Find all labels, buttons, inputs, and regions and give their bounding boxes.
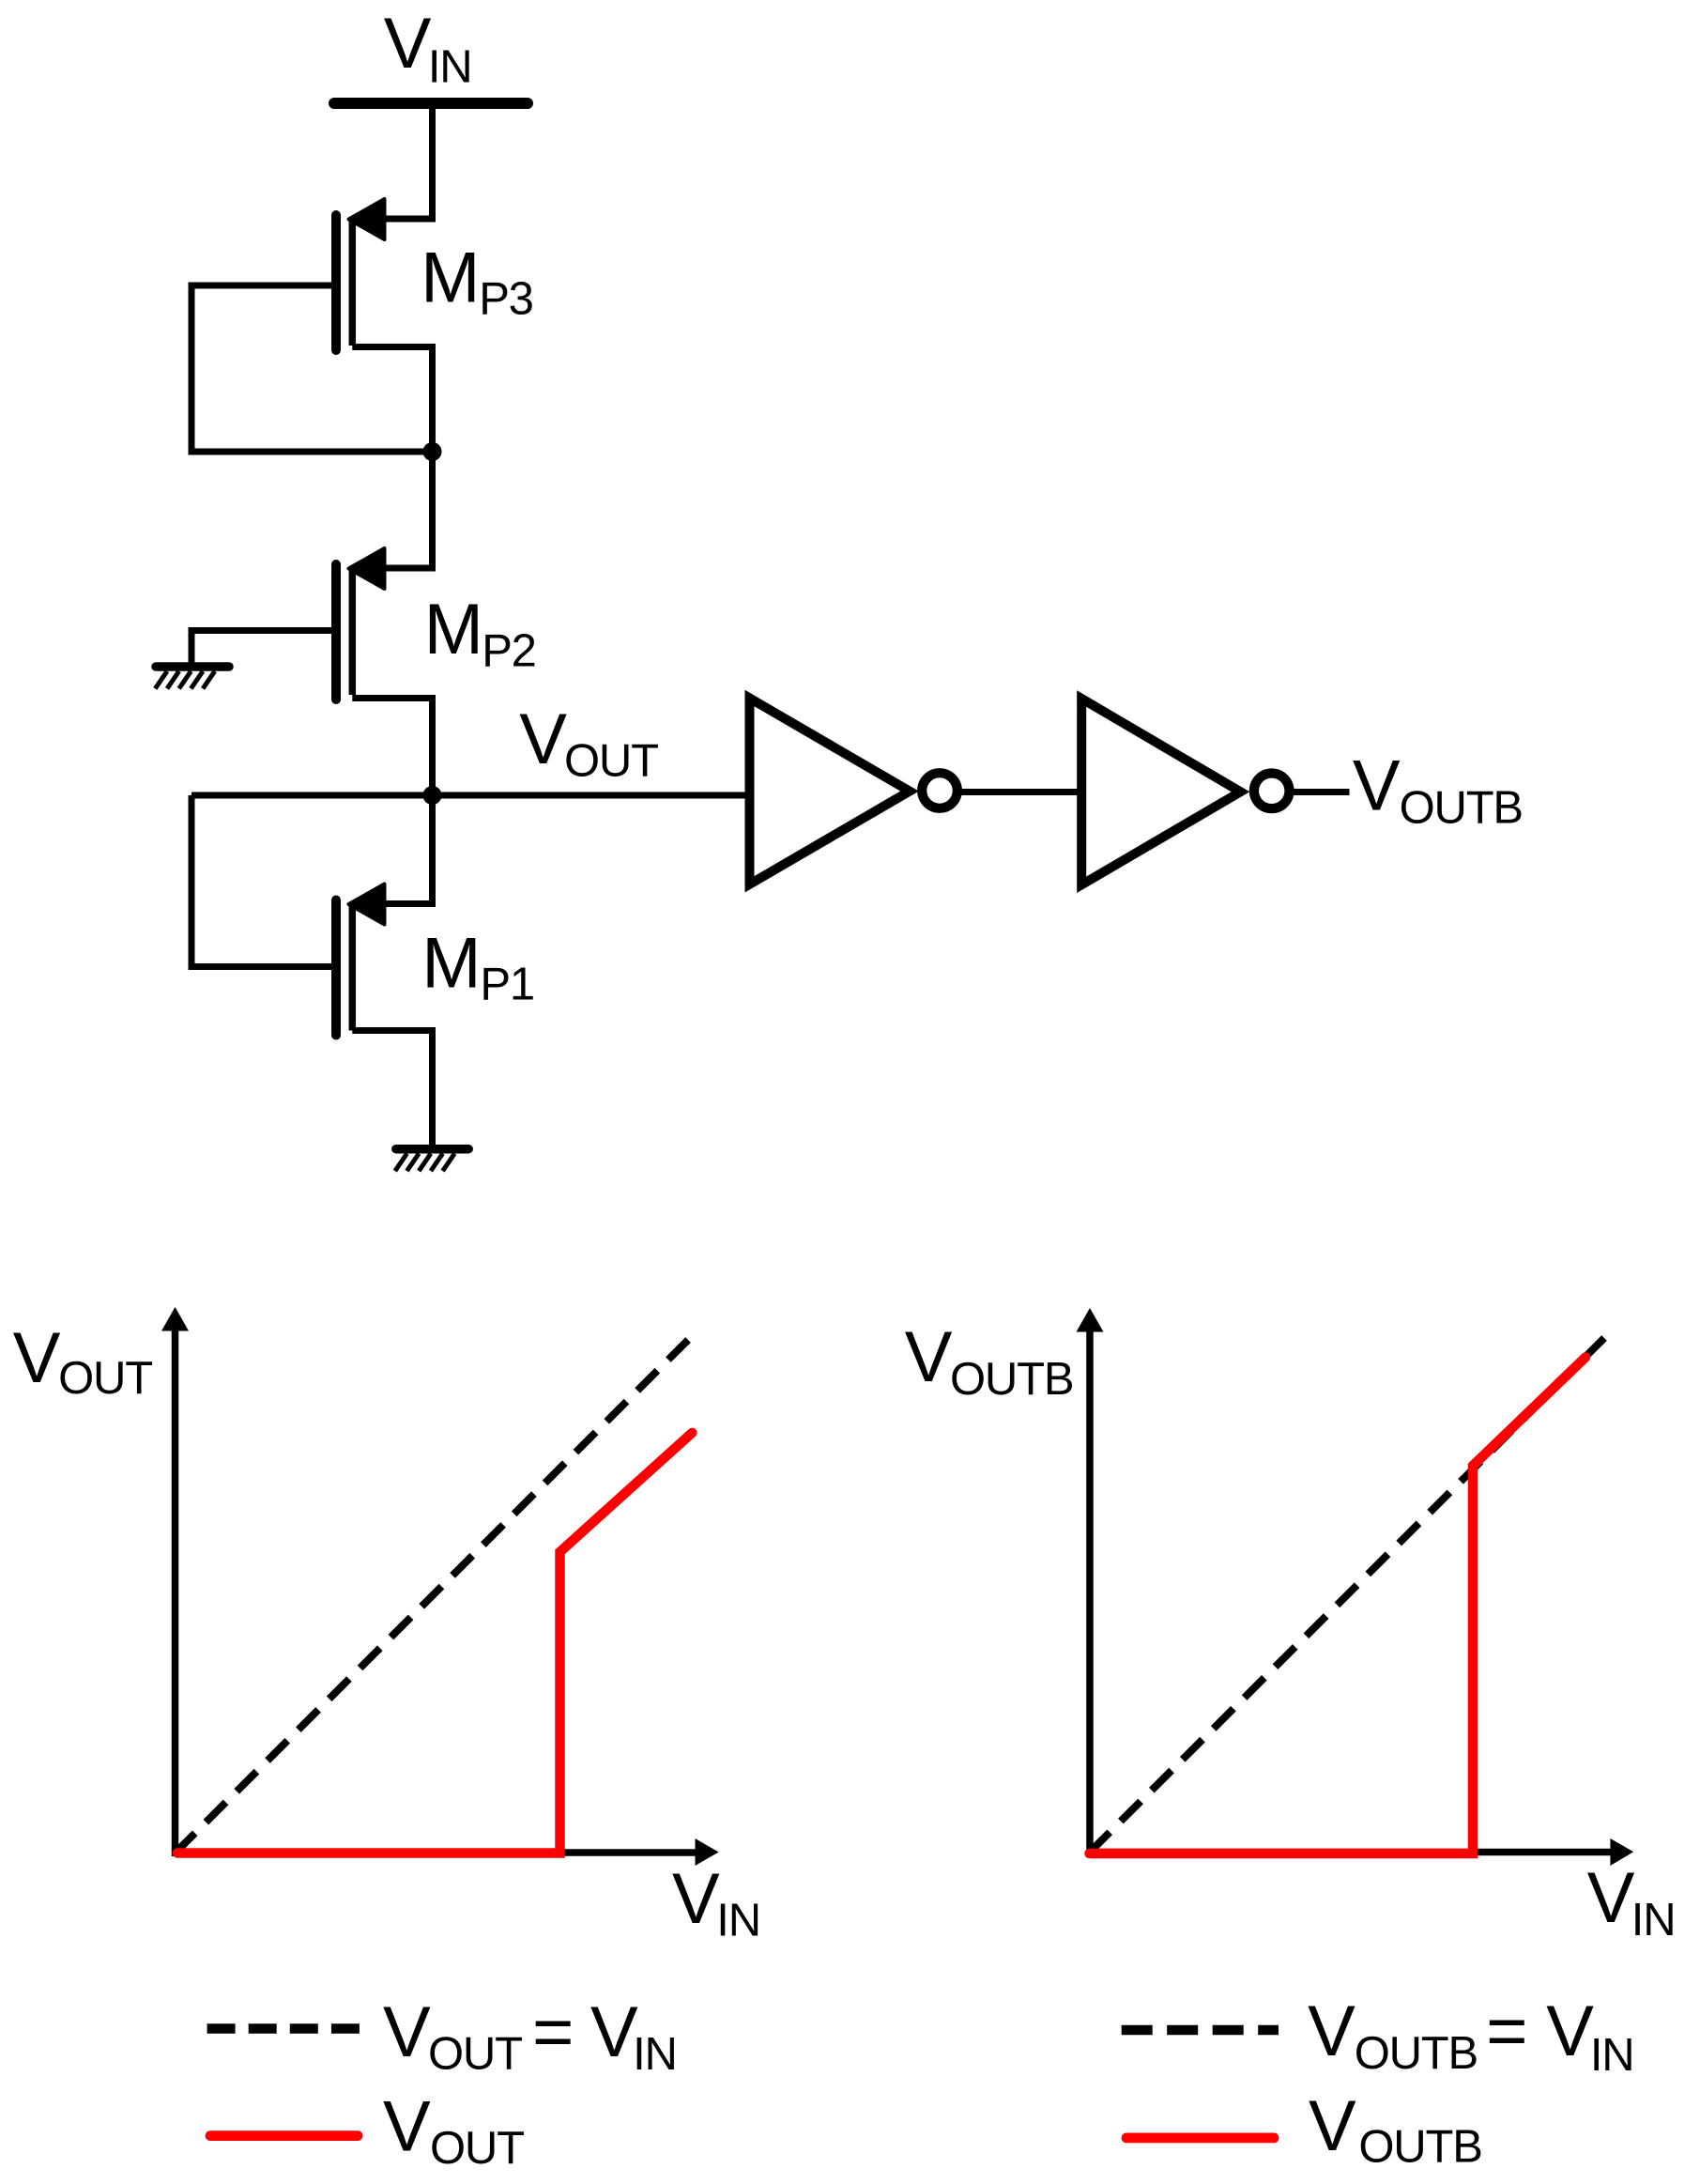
svg-text:P2: P2 — [482, 626, 536, 677]
svg-text:IN: IN — [1590, 2030, 1634, 2081]
svg-text:OUT: OUT — [428, 2029, 522, 2080]
svg-text:OUT: OUT — [564, 736, 658, 787]
svg-text:V: V — [383, 2087, 431, 2167]
svg-text:OUT: OUT — [58, 1353, 152, 1404]
svg-text:V: V — [383, 1992, 431, 2072]
svg-text:=: = — [532, 1992, 574, 2072]
svg-text:OUTB: OUTB — [1355, 2028, 1478, 2079]
svg-text:V: V — [519, 700, 567, 779]
svg-text:OUT: OUT — [430, 2123, 524, 2174]
svg-text:V: V — [1546, 1992, 1594, 2071]
svg-text:IN: IN — [1631, 1895, 1676, 1946]
svg-text:V: V — [1308, 1992, 1355, 2071]
svg-text:OUTB: OUTB — [950, 1354, 1073, 1405]
svg-text:OUTB: OUTB — [1358, 2122, 1481, 2173]
svg-text:IN: IN — [428, 42, 472, 93]
svg-text:V: V — [1309, 2086, 1356, 2166]
svg-text:V: V — [1587, 1858, 1635, 1938]
svg-text:IN: IN — [633, 2029, 677, 2080]
svg-text:OUTB: OUTB — [1400, 783, 1523, 834]
svg-text:P3: P3 — [479, 273, 533, 324]
svg-text:V: V — [1353, 746, 1401, 826]
svg-text:P1: P1 — [480, 960, 534, 1010]
svg-text:V: V — [905, 1317, 953, 1397]
svg-text:M: M — [421, 238, 480, 318]
svg-text:V: V — [384, 4, 432, 84]
svg-text:V: V — [13, 1318, 61, 1398]
svg-text:V: V — [590, 1992, 638, 2072]
svg-text:M: M — [421, 923, 481, 1003]
svg-text:M: M — [424, 590, 483, 669]
svg-text:V: V — [672, 1859, 720, 1939]
svg-text:IN: IN — [716, 1895, 760, 1946]
svg-text:=: = — [1486, 1992, 1527, 2071]
